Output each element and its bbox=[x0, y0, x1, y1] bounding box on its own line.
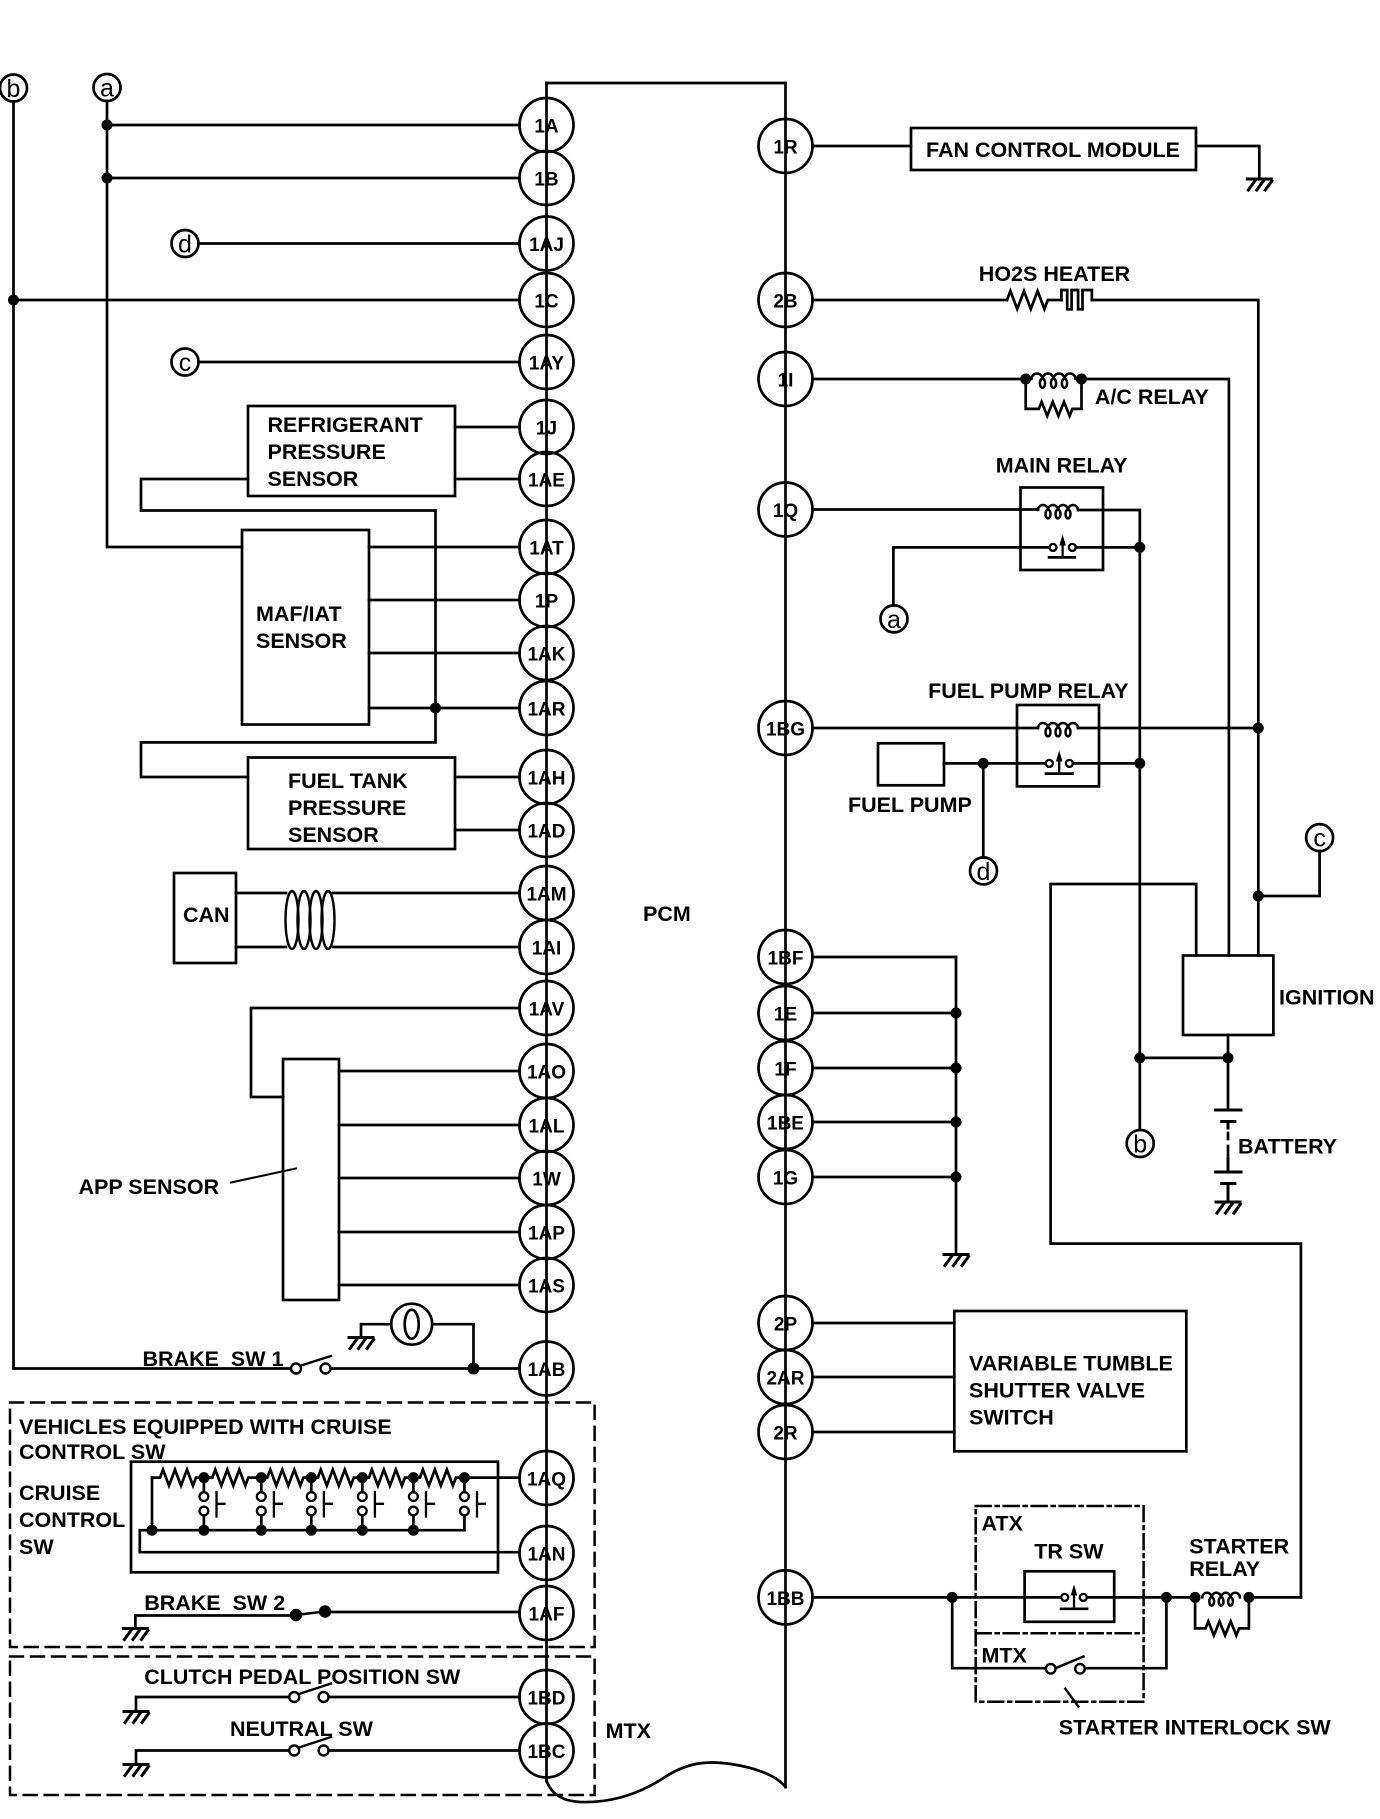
wire 1I bbox=[813, 378, 1026, 381]
junction fuel pump and d bbox=[978, 758, 989, 769]
svg-text:1AB: 1AB bbox=[527, 1360, 565, 1381]
junction cruise rail 3 bbox=[306, 1525, 317, 1536]
pin 1B bbox=[520, 151, 574, 205]
wire 1AK bbox=[369, 652, 520, 655]
wire main relay coil out bbox=[1078, 510, 1140, 1130]
wire 1AY bbox=[199, 361, 520, 364]
main relay coil bbox=[1038, 505, 1078, 518]
wire battery bus to b bbox=[1140, 1057, 1228, 1060]
pin 1AB bbox=[520, 1342, 574, 1396]
svg-text:1E: 1E bbox=[774, 1005, 797, 1026]
pin 1BB bbox=[759, 1570, 813, 1624]
svg-text:MAF/IAT: MAF/IAT bbox=[256, 602, 342, 626]
fuel pump relay contact bbox=[1046, 751, 1140, 774]
wire 1R bbox=[813, 145, 912, 148]
svg-text:TR SW: TR SW bbox=[1034, 1539, 1104, 1563]
wire CAN high bbox=[236, 892, 286, 895]
wire 1AR bbox=[369, 707, 520, 710]
svg-text:SW: SW bbox=[19, 1535, 54, 1559]
fan control module box bbox=[911, 128, 1196, 170]
wire 2AR bbox=[813, 1376, 955, 1379]
wire 1AO bbox=[339, 1070, 520, 1073]
starter relay label bbox=[1189, 1534, 1289, 1581]
cruise control sw label bbox=[19, 1481, 125, 1559]
starter interlock leader line bbox=[1065, 1689, 1078, 1707]
junction on a bus at 1A bbox=[102, 120, 113, 131]
svg-text:a: a bbox=[100, 75, 114, 103]
svg-text:1P: 1P bbox=[535, 592, 559, 613]
pin 1G bbox=[759, 1150, 813, 1204]
fuel pump box bbox=[878, 743, 944, 785]
wire 1AF bbox=[325, 1611, 520, 1614]
svg-text:STARTER: STARTER bbox=[1189, 1534, 1289, 1558]
svg-text:VEHICLES EQUIPPED WITH CRUISE: VEHICLES EQUIPPED WITH CRUISE bbox=[19, 1415, 392, 1439]
junction cruise top 5 bbox=[408, 1472, 419, 1483]
wire 1W bbox=[339, 1177, 520, 1180]
wire main relay contact left to a bbox=[893, 547, 1020, 605]
svg-text:CRUISE: CRUISE bbox=[19, 1481, 100, 1505]
junction 1BB branch left bbox=[947, 1592, 958, 1603]
svg-text:1BD: 1BD bbox=[527, 1689, 565, 1710]
pin 1W bbox=[520, 1151, 574, 1205]
cruise switch 5 bbox=[409, 1478, 434, 1531]
pin 1AV bbox=[520, 981, 574, 1035]
fuel pump relay coil bbox=[1038, 723, 1078, 736]
svg-text:1AN: 1AN bbox=[527, 1545, 565, 1566]
main relay contact bbox=[1021, 535, 1140, 558]
CAN twisted pair coil bbox=[286, 891, 335, 949]
cruise switch 2 bbox=[257, 1478, 282, 1531]
pin 1Q bbox=[759, 483, 813, 537]
brake switch 2 (closed) bbox=[291, 1607, 330, 1621]
wire fan module to ground bbox=[1196, 146, 1259, 178]
pin 1AT bbox=[520, 520, 574, 574]
pin 2P bbox=[759, 1296, 813, 1350]
TR SW contact bbox=[1061, 1585, 1087, 1609]
svg-text:1B: 1B bbox=[534, 170, 558, 191]
svg-text:1AV: 1AV bbox=[529, 1000, 565, 1021]
svg-text:2AR: 2AR bbox=[766, 1369, 804, 1390]
brake switch 1 bbox=[291, 1356, 331, 1374]
svg-text:1AL: 1AL bbox=[529, 1117, 565, 1138]
PCM right connector column line bbox=[784, 83, 787, 1787]
svg-text:1AI: 1AI bbox=[532, 939, 562, 960]
wire 1AB bbox=[331, 1367, 520, 1370]
wire 1F bbox=[813, 1067, 957, 1070]
wire a vertical bus to MAF/IAT bbox=[107, 101, 242, 547]
junction starter relay left bbox=[1190, 1592, 1201, 1603]
svg-text:1BB: 1BB bbox=[766, 1589, 804, 1610]
wire 1AQ bbox=[464, 1476, 519, 1479]
TR SW box bbox=[1025, 1571, 1115, 1622]
ATX/MTX divider bbox=[976, 1632, 1144, 1635]
junction cruise top 3 bbox=[306, 1472, 317, 1483]
APP sensor leader line bbox=[231, 1169, 296, 1183]
PCM top outline bbox=[547, 82, 786, 85]
svg-text:VARIABLE TUMBLE: VARIABLE TUMBLE bbox=[969, 1352, 1173, 1376]
wire 1B bbox=[107, 177, 520, 180]
junction cruise rail 2 bbox=[256, 1525, 267, 1536]
cruise switch 1 bbox=[200, 1478, 225, 1531]
MAF/IAT sensor box bbox=[242, 530, 369, 725]
wire brake switch 2 feed bbox=[135, 1616, 291, 1629]
junction cruise rail 5 bbox=[408, 1525, 419, 1536]
wire 1AI bbox=[333, 946, 520, 949]
brake lamp bbox=[391, 1304, 432, 1345]
pin 1BF bbox=[759, 930, 813, 984]
svg-text:1AD: 1AD bbox=[527, 822, 565, 843]
svg-text:b: b bbox=[7, 75, 21, 103]
pin 1AS bbox=[520, 1258, 574, 1312]
wire 1BF bbox=[813, 956, 957, 959]
svg-text:d: d bbox=[977, 858, 991, 886]
wire 1BG bbox=[813, 727, 1039, 730]
wire 1AH bbox=[455, 776, 520, 779]
cruise switch 4 bbox=[358, 1478, 383, 1531]
svg-text:1C: 1C bbox=[534, 292, 559, 313]
svg-text:HO2S HEATER: HO2S HEATER bbox=[979, 262, 1131, 286]
node c (right) bbox=[1306, 824, 1333, 853]
junction cruise top 2 bbox=[256, 1472, 267, 1483]
APP sensor box bbox=[283, 1059, 339, 1300]
variable tumble shutter valve switch label bbox=[969, 1352, 1173, 1430]
node a (top) bbox=[94, 74, 121, 103]
dashed enclosure: vehicles equipped with cruise control sw bbox=[10, 1403, 595, 1648]
pin 1AR bbox=[520, 681, 574, 735]
svg-text:1AH: 1AH bbox=[527, 769, 565, 790]
svg-text:MTX: MTX bbox=[982, 1644, 1028, 1668]
fuel tank pressure sensor box bbox=[248, 758, 455, 850]
ignition feed wire to starter relay bbox=[1051, 884, 1301, 1597]
junction on a bus at 1B bbox=[102, 173, 113, 184]
ground at brake switch 2 bbox=[123, 1629, 148, 1640]
CAN box bbox=[174, 873, 236, 963]
svg-text:BRAKE SW 1: BRAKE SW 1 bbox=[143, 1347, 284, 1371]
wire cruise chain left leg bbox=[151, 1478, 154, 1531]
A/C relay coil bbox=[1032, 374, 1076, 388]
svg-text:PRESSURE: PRESSURE bbox=[268, 440, 386, 464]
svg-text:1AY: 1AY bbox=[529, 354, 565, 375]
svg-text:1R: 1R bbox=[773, 138, 798, 159]
svg-text:NEUTRAL SW: NEUTRAL SW bbox=[230, 1717, 374, 1741]
svg-text:1AE: 1AE bbox=[528, 471, 565, 492]
svg-text:RELAY: RELAY bbox=[1189, 1557, 1260, 1581]
svg-text:1G: 1G bbox=[773, 1169, 798, 1190]
wire HO2S to ignition bbox=[1092, 300, 1258, 956]
pin 1AI bbox=[520, 920, 574, 974]
svg-text:1AM: 1AM bbox=[526, 885, 566, 906]
svg-text:CLUTCH PEDAL POSITION SW: CLUTCH PEDAL POSITION SW bbox=[144, 1665, 461, 1689]
wire refrigerant sensor return bbox=[141, 479, 436, 708]
svg-text:1AR: 1AR bbox=[527, 700, 565, 721]
pin 1A bbox=[520, 98, 574, 152]
pin 1AO bbox=[520, 1044, 574, 1098]
fuel pump relay box bbox=[1017, 705, 1099, 786]
ignition switch box bbox=[1183, 956, 1273, 1036]
svg-text:1I: 1I bbox=[778, 371, 794, 392]
junction cruise top 6 bbox=[459, 1472, 470, 1483]
junction cruise top 1 bbox=[198, 1472, 209, 1483]
wire fuel pump to relay contact bbox=[944, 762, 1045, 765]
wire 1E bbox=[813, 1012, 957, 1015]
pin 1BC bbox=[520, 1724, 574, 1778]
wire lamp right to 1AB bbox=[432, 1324, 473, 1368]
ground at fan control module bbox=[1247, 179, 1272, 190]
ground at brake lamp bbox=[349, 1338, 374, 1349]
ground bus for 1BF 1E 1F 1BE 1G bbox=[955, 957, 958, 1253]
pin 1J bbox=[520, 400, 574, 454]
pin 1AD bbox=[520, 803, 574, 857]
wire 1BC bbox=[329, 1749, 520, 1752]
pin 1AE bbox=[520, 452, 574, 506]
svg-text:1Q: 1Q bbox=[773, 501, 798, 522]
svg-text:SWITCH: SWITCH bbox=[969, 1406, 1054, 1430]
wire 1P bbox=[369, 599, 520, 602]
svg-text:IGNITION: IGNITION bbox=[1279, 986, 1375, 1010]
resistor HO2S bbox=[1007, 291, 1061, 309]
pin 1AK bbox=[520, 626, 574, 680]
pin 1AP bbox=[520, 1205, 574, 1259]
resistor cruise R5 bbox=[362, 1470, 411, 1486]
ground at PCM ground bus bbox=[944, 1255, 969, 1266]
wire 1A bbox=[107, 124, 520, 127]
variable tumble shutter valve switch box bbox=[954, 1311, 1186, 1451]
ATX/MTX dash-dot enclosure bbox=[976, 1506, 1144, 1702]
junction A/C coil right bbox=[1076, 374, 1087, 385]
resistor cruise R1 bbox=[152, 1470, 204, 1486]
junction 1G bbox=[951, 1172, 962, 1183]
pin 1F bbox=[759, 1041, 813, 1095]
junction cruise rail 4 bbox=[357, 1525, 368, 1536]
node b (right) bbox=[1127, 1130, 1154, 1159]
junction 1BB branch right bbox=[1161, 1592, 1172, 1603]
svg-text:a: a bbox=[887, 606, 901, 634]
wire TR SW to starter relay bbox=[1088, 1596, 1196, 1599]
PCM left connector column line bbox=[545, 83, 548, 1781]
cruise control sw box bbox=[131, 1462, 498, 1573]
svg-text:PCM: PCM bbox=[643, 902, 691, 926]
pin 1BE bbox=[759, 1095, 813, 1149]
wire 1BE bbox=[813, 1121, 957, 1124]
svg-text:FUEL TANK: FUEL TANK bbox=[288, 769, 408, 793]
wire b vertical bus bbox=[14, 102, 292, 1369]
pin 2AR bbox=[759, 1350, 813, 1404]
resistor cruise R2 bbox=[204, 1470, 256, 1486]
refrigerant pressure sensor box bbox=[248, 406, 455, 496]
svg-text:SHUTTER VALVE: SHUTTER VALVE bbox=[969, 1379, 1145, 1403]
junction 1BE bbox=[951, 1117, 962, 1128]
pin 1AN bbox=[520, 1526, 574, 1580]
wire 1AV bbox=[251, 1008, 520, 1097]
svg-text:1J: 1J bbox=[536, 419, 557, 440]
starter interlock switch bbox=[1046, 1657, 1085, 1674]
dashed enclosure: MTX bbox=[10, 1657, 595, 1796]
battery bbox=[1216, 1110, 1241, 1201]
MTX bypass wire bbox=[952, 1597, 1166, 1668]
svg-text:1W: 1W bbox=[532, 1170, 561, 1191]
svg-text:FAN CONTROL MODULE: FAN CONTROL MODULE bbox=[926, 138, 1180, 162]
svg-text:d: d bbox=[178, 231, 192, 259]
wire 1BD bbox=[329, 1696, 520, 1699]
junction at battery drop bbox=[1223, 1052, 1234, 1063]
wire ignition to battery bus bbox=[1227, 1035, 1230, 1110]
wire 2P bbox=[813, 1322, 955, 1325]
cruise switch 3 bbox=[307, 1478, 332, 1531]
svg-text:FUEL PUMP RELAY: FUEL PUMP RELAY bbox=[928, 679, 1128, 703]
pin 1C bbox=[520, 273, 574, 327]
junction on 1AR wire bbox=[430, 703, 441, 714]
neutral switch bbox=[289, 1737, 331, 1756]
wire 2R bbox=[813, 1431, 955, 1434]
wire 2B bbox=[813, 299, 1008, 302]
junction HO2S line and c bbox=[1253, 891, 1264, 902]
junction 1E bbox=[951, 1008, 962, 1019]
main relay box bbox=[1021, 488, 1104, 571]
svg-text:1BG: 1BG bbox=[766, 720, 805, 741]
svg-text:1AK: 1AK bbox=[527, 645, 565, 666]
junction starter relay right bbox=[1243, 1592, 1254, 1603]
wire 1AM bbox=[333, 892, 520, 895]
svg-text:FUEL PUMP: FUEL PUMP bbox=[848, 793, 972, 817]
wire lamp left to ground bbox=[361, 1324, 391, 1336]
junction on b bus at 1C bbox=[8, 295, 19, 306]
svg-text:1AJ: 1AJ bbox=[529, 235, 564, 256]
ground at clutch switch bbox=[124, 1712, 149, 1723]
wire fuel pump relay coil out bbox=[1078, 727, 1258, 730]
wire 1G bbox=[813, 1176, 957, 1179]
starter relay coil bbox=[1202, 1593, 1240, 1606]
svg-text:1BE: 1BE bbox=[767, 1114, 804, 1135]
pin 1AL bbox=[520, 1098, 574, 1152]
pin 1E bbox=[759, 986, 813, 1040]
svg-text:BATTERY: BATTERY bbox=[1238, 1135, 1337, 1159]
node d (left) bbox=[172, 230, 199, 259]
wire 1BB bbox=[813, 1596, 1061, 1599]
svg-text:c: c bbox=[179, 349, 192, 377]
node d (right) bbox=[970, 857, 997, 886]
wire fuel tank sensor feed bbox=[141, 708, 436, 777]
pin 1BG bbox=[759, 701, 813, 755]
svg-text:CONTROL: CONTROL bbox=[19, 1508, 125, 1532]
wire to node d bbox=[982, 763, 985, 857]
junction at b drop bbox=[1134, 1052, 1145, 1063]
wire clutch switch feed bbox=[136, 1697, 289, 1712]
wire neutral switch feed bbox=[136, 1751, 289, 1765]
junction HO2S line and 1BG bbox=[1253, 723, 1264, 734]
junction main relay contact right bbox=[1134, 542, 1145, 553]
svg-text:1BF: 1BF bbox=[768, 949, 804, 970]
pin 2R bbox=[759, 1405, 813, 1459]
pin 1AF bbox=[520, 1586, 574, 1640]
pin 1BD bbox=[520, 1670, 574, 1724]
pin 1AJ bbox=[520, 217, 574, 271]
svg-text:1AT: 1AT bbox=[529, 539, 564, 560]
svg-text:2P: 2P bbox=[774, 1315, 798, 1336]
wire 1AS bbox=[339, 1284, 520, 1287]
svg-text:MTX: MTX bbox=[606, 1719, 652, 1743]
svg-text:1F: 1F bbox=[774, 1060, 796, 1081]
pin 1AQ bbox=[520, 1451, 574, 1505]
pin 1R bbox=[759, 119, 813, 173]
junction cruise top 4 bbox=[357, 1472, 368, 1483]
resistor cruise R6 bbox=[413, 1470, 462, 1486]
pin 1AY bbox=[520, 335, 574, 389]
resistor cruise R4 bbox=[311, 1470, 360, 1486]
junction cruise rail left bbox=[147, 1525, 158, 1536]
A/C relay resistor branch bbox=[1026, 379, 1082, 416]
junction cruise rail 1 bbox=[198, 1525, 209, 1536]
heater element HO2S bbox=[1061, 290, 1092, 309]
node b (top left) bbox=[0, 75, 27, 104]
ground at battery bbox=[1216, 1202, 1241, 1213]
pin 1I bbox=[759, 352, 813, 406]
pin 1AH bbox=[520, 750, 574, 804]
svg-text:SENSOR: SENSOR bbox=[288, 823, 379, 847]
wire A/C to ignition bbox=[1082, 379, 1229, 956]
wire 1J bbox=[455, 426, 520, 429]
wire 1AT bbox=[369, 546, 520, 549]
svg-text:ATX: ATX bbox=[982, 1512, 1024, 1536]
svg-text:1AO: 1AO bbox=[527, 1063, 566, 1084]
svg-text:A/C RELAY: A/C RELAY bbox=[1095, 385, 1209, 409]
svg-text:MAIN RELAY: MAIN RELAY bbox=[996, 454, 1128, 478]
svg-text:CAN: CAN bbox=[183, 903, 230, 927]
junction fuel pump contact right bbox=[1134, 758, 1145, 769]
svg-text:STARTER INTERLOCK SW: STARTER INTERLOCK SW bbox=[1059, 1715, 1332, 1739]
pin 1AM bbox=[520, 866, 574, 920]
wire 1C bbox=[14, 299, 520, 302]
clutch pedal position switch bbox=[289, 1684, 331, 1703]
wire 1Q bbox=[813, 508, 1039, 511]
node a (right) bbox=[881, 605, 908, 634]
pin 1P bbox=[520, 573, 574, 627]
PCM wavy bottom outline bbox=[547, 1762, 786, 1802]
starter relay resistor branch bbox=[1195, 1597, 1249, 1635]
wire 1AD bbox=[455, 829, 520, 832]
wire CAN low bbox=[236, 946, 286, 949]
wire 1AL bbox=[339, 1124, 520, 1127]
svg-text:2B: 2B bbox=[773, 292, 797, 313]
ground at neutral switch bbox=[124, 1765, 149, 1776]
svg-text:1AQ: 1AQ bbox=[527, 1470, 566, 1491]
cruise switch 6 bbox=[460, 1478, 485, 1531]
svg-text:SENSOR: SENSOR bbox=[268, 467, 359, 491]
wire 1AE bbox=[455, 478, 520, 481]
svg-text:1AP: 1AP bbox=[528, 1224, 565, 1245]
node c (left) bbox=[172, 349, 199, 378]
svg-text:b: b bbox=[1133, 1131, 1147, 1159]
wire starter relay to ignition feed bbox=[1249, 1596, 1301, 1599]
svg-text:1AF: 1AF bbox=[529, 1605, 565, 1626]
wire c to HO2S line bbox=[1258, 851, 1319, 896]
wire 1AJ bbox=[199, 242, 520, 245]
svg-text:APP SENSOR: APP SENSOR bbox=[79, 1175, 220, 1199]
pin 2B bbox=[759, 273, 813, 327]
svg-text:SENSOR: SENSOR bbox=[256, 629, 347, 653]
junction 1F bbox=[951, 1063, 962, 1074]
cruise bottom rail bbox=[152, 1529, 464, 1532]
svg-text:1AS: 1AS bbox=[528, 1277, 565, 1298]
junction A/C coil left bbox=[1020, 374, 1031, 385]
svg-text:REFRIGERANT: REFRIGERANT bbox=[268, 413, 423, 437]
svg-text:BRAKE SW 2: BRAKE SW 2 bbox=[144, 1591, 285, 1615]
svg-text:PRESSURE: PRESSURE bbox=[288, 796, 406, 820]
svg-text:1BC: 1BC bbox=[527, 1742, 565, 1763]
wire 1AN bbox=[140, 1530, 520, 1552]
resistor cruise R3 bbox=[261, 1470, 309, 1486]
svg-text:2R: 2R bbox=[773, 1424, 798, 1445]
svg-text:1A: 1A bbox=[534, 117, 559, 138]
